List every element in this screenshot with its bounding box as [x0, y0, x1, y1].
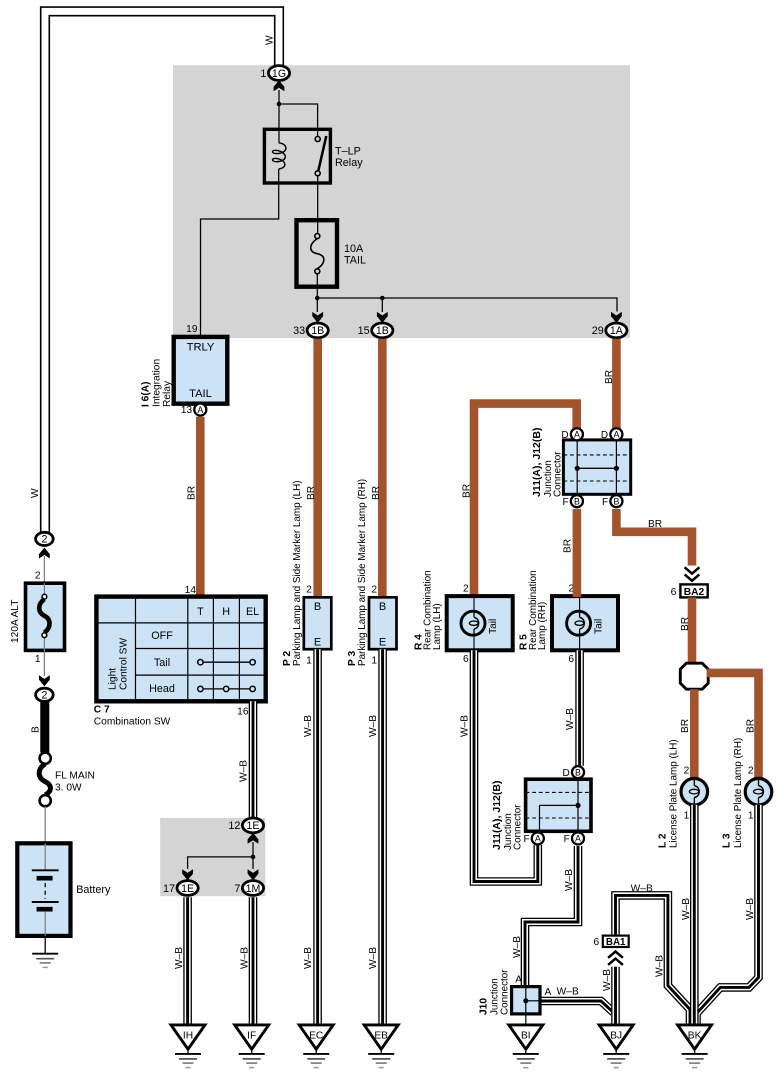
svg-text:D: D: [601, 430, 608, 441]
wire 1G to relay switch: [279, 90, 318, 136]
svg-text:W–B: W–B: [631, 883, 653, 894]
drop to 15-1B: [381, 298, 383, 312]
svg-text:BR: BR: [648, 519, 662, 530]
connector 29 1A: [592, 323, 627, 338]
svg-text:B: B: [574, 497, 580, 507]
svg-text:BR: BR: [371, 486, 382, 500]
svg-text:15: 15: [358, 325, 370, 337]
ground: [303, 1049, 329, 1067]
pin D-A right of J11: [601, 428, 623, 441]
wire W-B P2 to ground EC: [313, 649, 322, 1024]
ground IF: [235, 1025, 269, 1049]
wire BR octagon to L3: [707, 673, 759, 779]
svg-text:W–B: W–B: [565, 708, 576, 730]
wire relay coil to TRLY pin 19: [201, 169, 279, 337]
ground BJ: [599, 1025, 633, 1049]
svg-text:J11(A), J12(B): J11(A), J12(B): [491, 781, 503, 850]
integration relay I6(A) box: [174, 337, 228, 404]
svg-text:16: 16: [237, 707, 249, 718]
svg-text:Relay: Relay: [162, 380, 173, 407]
svg-text:TAIL: TAIL: [344, 255, 366, 267]
wire W-B J10 to BJ wire: [540, 1001, 614, 1013]
wire to connector 2 lower: [43, 650, 45, 676]
svg-text:1: 1: [371, 655, 377, 666]
wire W-B L2 to ground BK: [690, 805, 699, 1025]
svg-text:D: D: [563, 768, 570, 779]
svg-text:A: A: [515, 975, 522, 986]
arrow into connector 2: [39, 548, 50, 559]
svg-text:IH: IH: [183, 1030, 193, 1041]
wire 12-1E to 17-1E: [188, 842, 253, 869]
svg-text:License Plate Lamp (RH): License Plate Lamp (RH): [733, 738, 744, 848]
wire W-B L3 to ground BK: [697, 805, 759, 1025]
svg-text:120A ALT: 120A ALT: [10, 600, 21, 643]
svg-text:Head: Head: [149, 683, 175, 695]
svg-text:T: T: [197, 606, 204, 618]
ground below battery: [32, 949, 58, 967]
wire relay switch to fuse: [317, 176, 319, 234]
svg-text:1: 1: [684, 811, 690, 822]
battery ground lead: [44, 936, 46, 949]
wire W-B P3 to ground EB: [378, 649, 387, 1024]
svg-text:W–B: W–B: [368, 947, 379, 969]
svg-text:W–B: W–B: [239, 947, 250, 969]
svg-text:1E: 1E: [181, 883, 194, 895]
wire BR 29-1A to junction connector: [612, 339, 621, 429]
wire BR I6 pin13 to combination SW pin14: [196, 417, 205, 598]
svg-text:F: F: [602, 497, 608, 508]
svg-text:2: 2: [35, 571, 41, 582]
svg-text:13: 13: [181, 405, 193, 416]
svg-text:W–B: W–B: [368, 715, 379, 737]
svg-text:BA2: BA2: [684, 587, 705, 598]
svg-text:1: 1: [306, 655, 312, 666]
svg-text:1A: 1A: [610, 325, 624, 337]
splice octagon: [680, 663, 708, 689]
svg-text:Connector: Connector: [553, 451, 564, 497]
arrow into 33-1B: [312, 312, 323, 323]
svg-text:BR: BR: [680, 719, 691, 733]
svg-text:2: 2: [748, 766, 754, 777]
gray power-supply panel: [173, 65, 630, 338]
svg-text:33: 33: [293, 325, 305, 337]
svg-text:EB: EB: [374, 1030, 388, 1041]
fusible link FL MAIN 3.0W: [39, 753, 51, 807]
battery: [17, 843, 70, 936]
svg-text:6: 6: [463, 654, 469, 665]
ground: [239, 1049, 265, 1067]
svg-text:BR: BR: [187, 486, 198, 500]
wire BR junction F-B to BA2: [616, 509, 692, 566]
svg-text:BA1: BA1: [606, 937, 626, 948]
svg-text:OFF: OFF: [151, 630, 173, 642]
pin F-B right of J11: [602, 495, 622, 508]
svg-text:A: A: [613, 430, 619, 440]
wire BR octagon to L2: [690, 689, 699, 779]
pin F-A left of lower junction: [523, 832, 543, 845]
svg-text:A: A: [545, 987, 552, 998]
svg-text:W–B: W–B: [303, 715, 314, 737]
svg-text:W–B: W–B: [745, 898, 756, 920]
wire to 15-1B and 29-1A: [317, 298, 617, 312]
svg-text:Tail: Tail: [154, 657, 170, 669]
arrow into 29-1A: [611, 312, 622, 323]
ground: [603, 1049, 629, 1067]
lamp R 5 box: [552, 596, 618, 650]
svg-text:Connector: Connector: [513, 804, 524, 850]
wire BR 33-1B to P2: [313, 339, 322, 598]
wire B (thick black): [40, 701, 49, 752]
svg-text:L 2: L 2: [658, 833, 669, 848]
ground: [682, 1049, 708, 1067]
svg-text:10A: 10A: [344, 243, 364, 255]
wire W-B 17-1E to ground IH: [183, 897, 192, 1024]
svg-text:C 7: C 7: [94, 705, 110, 716]
connector 17 1E: [163, 881, 198, 896]
svg-text:BI: BI: [521, 1030, 531, 1041]
svg-text:E: E: [379, 637, 386, 649]
svg-text:Parking Lamp and Side Marker L: Parking Lamp and Side Marker Lamp (RH): [357, 479, 368, 666]
svg-text:2: 2: [684, 766, 690, 777]
ground: [368, 1049, 394, 1067]
svg-text:W: W: [30, 488, 41, 498]
ground: [513, 1049, 539, 1067]
svg-text:3. 0W: 3. 0W: [55, 783, 82, 794]
combination switch C7 table: [96, 597, 265, 702]
connector 12 1E: [228, 818, 263, 833]
svg-text:6: 6: [568, 654, 574, 665]
svg-text:Tail: Tail: [594, 619, 605, 634]
svg-text:W–B: W–B: [602, 969, 613, 991]
svg-text:E: E: [314, 637, 321, 649]
wire BR BA2 to splice octagon: [688, 597, 697, 664]
svg-text:W–B: W–B: [460, 715, 471, 737]
relay coil: [272, 143, 285, 169]
connector 6 BA2: [671, 584, 708, 597]
svg-text:W–B: W–B: [174, 947, 185, 969]
svg-text:B: B: [379, 601, 386, 613]
svg-text:7: 7: [234, 883, 240, 895]
svg-text:1: 1: [35, 654, 41, 665]
wire W-B R5 to junction D-B: [575, 650, 584, 766]
svg-text:I 6(A): I 6(A): [140, 382, 151, 407]
svg-text:29: 29: [592, 325, 604, 337]
pin 13 A of I6: [181, 404, 206, 417]
svg-text:H: H: [222, 606, 230, 618]
svg-text:14: 14: [185, 585, 197, 596]
svg-text:1G: 1G: [272, 68, 286, 80]
connector 7 1M: [234, 881, 263, 896]
wire to battery: [44, 806, 46, 843]
svg-text:W–B: W–B: [512, 936, 523, 958]
svg-text:T–LP: T–LP: [335, 145, 361, 157]
ground EB: [364, 1025, 398, 1049]
wire W-B BA1 to ground BJ: [611, 967, 620, 1025]
svg-text:1: 1: [748, 811, 754, 822]
svg-text:W–B: W–B: [564, 869, 575, 891]
svg-text:W–B: W–B: [681, 898, 692, 920]
junction connector J11(A) J12(B) upper box: [563, 440, 630, 494]
svg-text:A: A: [535, 834, 541, 844]
svg-text:W–B: W–B: [303, 947, 314, 969]
wire W-B R4 to junction F-A left: [474, 650, 538, 881]
svg-text:W–B: W–B: [655, 955, 666, 977]
svg-text:Combination SW: Combination SW: [94, 717, 171, 728]
svg-text:TAIL: TAIL: [189, 388, 212, 400]
wire to 120A ALT: [43, 556, 45, 583]
svg-text:6: 6: [671, 587, 677, 598]
wire to relay coil: [278, 104, 280, 143]
svg-text:2: 2: [41, 690, 47, 702]
svg-text:Light: Light: [108, 668, 119, 690]
svg-text:17: 17: [163, 883, 175, 895]
svg-text:A: A: [197, 405, 203, 415]
connector 6 BA1: [593, 936, 628, 948]
ground BK: [678, 1025, 712, 1049]
ground IH: [171, 1025, 205, 1049]
svg-text:Lamp (LH): Lamp (LH): [432, 603, 443, 650]
svg-text:FL MAIN: FL MAIN: [55, 771, 95, 782]
wire BR 15-1B to P3: [378, 339, 387, 598]
lamp L 2 bulb: [681, 778, 708, 805]
wire BR to R4 and junction connector D-A: [474, 404, 577, 597]
svg-text:Battery: Battery: [76, 884, 111, 896]
svg-text:1E: 1E: [247, 820, 260, 832]
connector 1G: [260, 66, 289, 81]
svg-text:B: B: [314, 601, 321, 613]
lamp P 3 box: [369, 597, 397, 649]
svg-text:2: 2: [463, 584, 469, 595]
arrow into 7-1M: [248, 869, 259, 880]
arrow into 12-1E: [248, 833, 259, 844]
svg-text:D: D: [561, 430, 568, 441]
svg-text:BR: BR: [746, 719, 757, 733]
wire W from fusible link to connector 1G: [45, 11, 279, 533]
lamp R 4 box: [447, 596, 513, 650]
svg-text:6: 6: [593, 937, 599, 948]
svg-text:W–B: W–B: [557, 986, 579, 997]
wire W-B BA1 to ground BK: [616, 895, 691, 1024]
svg-text:Relay: Relay: [335, 157, 363, 169]
svg-text:BK: BK: [688, 1030, 702, 1041]
pin F-B left of J11: [563, 495, 583, 508]
wire W-B 7-1M to ground IF: [249, 897, 258, 1024]
svg-text:License Plate Lamp (LH): License Plate Lamp (LH): [669, 739, 680, 848]
svg-text:A: A: [575, 834, 581, 844]
svg-text:EL: EL: [246, 606, 259, 618]
wire BR junction F-B to R5: [573, 509, 582, 597]
wire W-B combination SW pin16 to 12-1E: [249, 701, 258, 818]
svg-text:2: 2: [306, 585, 312, 596]
svg-text:BR: BR: [604, 370, 615, 384]
svg-text:BR: BR: [562, 539, 573, 553]
relay T-LP box: [264, 129, 330, 183]
svg-text:J10: J10: [479, 998, 490, 1015]
svg-text:12: 12: [228, 820, 240, 832]
svg-text:F: F: [564, 834, 570, 845]
svg-text:L 3: L 3: [722, 833, 733, 848]
svg-text:Parking Lamp and Side Marker L: Parking Lamp and Side Marker Lamp (LH): [292, 480, 303, 666]
ground BI: [509, 1025, 543, 1049]
svg-text:2: 2: [371, 585, 377, 596]
chevron arrow into BA1: [608, 952, 623, 965]
svg-text:Tail: Tail: [488, 619, 499, 634]
svg-text:F: F: [563, 497, 569, 508]
svg-text:TRLY: TRLY: [187, 341, 215, 353]
svg-text:BR: BR: [680, 617, 691, 631]
svg-text:J11(A), J12(B): J11(A), J12(B): [531, 428, 543, 497]
relay switch: [315, 136, 326, 176]
fusible link 120A ALT: [26, 583, 65, 650]
svg-text:BR: BR: [306, 486, 317, 500]
switch contacts Tail row: [198, 660, 256, 665]
arrow into 17-1E: [182, 869, 193, 880]
gray splice panel: [160, 818, 265, 896]
connector 2 lower: [36, 688, 54, 701]
svg-text:B: B: [575, 768, 581, 778]
pin F-A right of lower junction: [564, 832, 584, 845]
svg-text:1B: 1B: [376, 325, 389, 337]
arrow into 15-1B: [377, 312, 388, 323]
svg-text:1B: 1B: [311, 325, 324, 337]
connector 33 1B: [293, 323, 328, 338]
svg-text:1: 1: [260, 68, 266, 80]
svg-text:2: 2: [41, 534, 47, 546]
connector 2 upper: [36, 532, 54, 545]
lamp P 2 box: [304, 597, 332, 649]
junction: [277, 102, 282, 107]
fuse 10A TAIL: [297, 220, 338, 287]
svg-text:B: B: [31, 726, 42, 733]
svg-text:W: W: [265, 35, 276, 45]
ground: [175, 1049, 201, 1067]
svg-text:BR: BR: [461, 484, 472, 498]
svg-text:F: F: [523, 834, 529, 845]
junction connector J10: [512, 987, 540, 1025]
arrow into lower connector 2: [39, 675, 50, 686]
svg-text:19: 19: [186, 324, 198, 335]
svg-text:W–B: W–B: [239, 760, 250, 782]
svg-text:A: A: [574, 430, 580, 440]
svg-text:Lamp (RH): Lamp (RH): [537, 602, 548, 650]
wire fuse to 1B: [316, 274, 318, 312]
svg-text:Control SW: Control SW: [118, 638, 129, 690]
svg-text:1M: 1M: [246, 883, 261, 895]
arrow into 1G: [274, 80, 285, 91]
wire 12-1E to 7-1M: [252, 857, 254, 869]
ground EC: [299, 1025, 333, 1049]
svg-text:EC: EC: [309, 1030, 323, 1041]
pin D-B of lower junction: [563, 766, 585, 779]
junction connector J11(A) J12(B) lower box: [526, 779, 591, 831]
chevron arrow into BA2: [685, 567, 700, 580]
wire W-B junction F-A to J10: [525, 846, 578, 987]
connector 15 1B: [358, 323, 393, 338]
svg-text:BJ: BJ: [610, 1030, 622, 1041]
svg-text:Connector: Connector: [499, 969, 510, 1015]
svg-text:IF: IF: [247, 1030, 256, 1041]
pin D-A left of J11: [561, 428, 583, 441]
switch contacts Head row: [198, 686, 256, 691]
svg-text:B: B: [613, 497, 619, 507]
lamp L 3 bulb: [745, 778, 772, 805]
